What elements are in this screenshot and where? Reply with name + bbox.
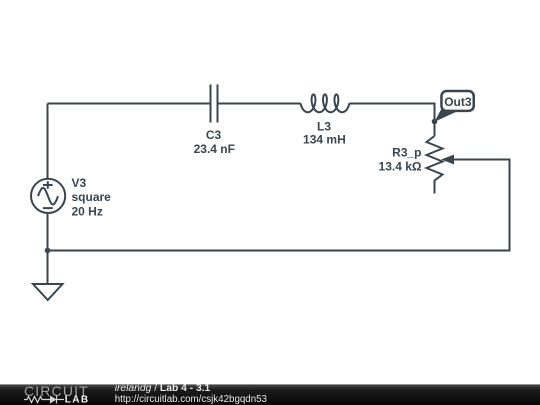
- svg-text:134 mH: 134 mH: [303, 132, 346, 146]
- svg-text:irelandg / Lab 4 - 3.1: irelandg / Lab 4 - 3.1: [115, 383, 211, 394]
- svg-text:23.4 nF: 23.4 nF: [194, 142, 235, 156]
- svg-text:Out3: Out3: [444, 95, 472, 109]
- svg-text:http://circuitlab.com/csjk42bg: http://circuitlab.com/csjk42bgqdn53: [115, 394, 267, 405]
- svg-text:LAB: LAB: [65, 395, 90, 405]
- svg-text:13.4 kΩ: 13.4 kΩ: [379, 159, 422, 173]
- svg-text:square: square: [72, 190, 112, 204]
- svg-text:R3_p: R3_p: [392, 146, 421, 160]
- svg-text:C3: C3: [206, 128, 222, 142]
- svg-text:20 Hz: 20 Hz: [72, 205, 103, 219]
- svg-text:V3: V3: [72, 176, 87, 190]
